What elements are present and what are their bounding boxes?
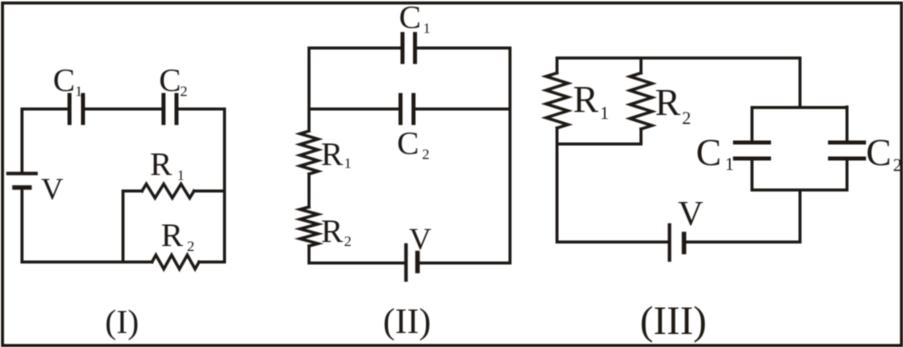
label V (circuit III) (678, 194, 703, 233)
resistor R2 (circuit III) (630, 73, 652, 129)
svg-text:V: V (41, 171, 64, 206)
label C1 (circuit III) (696, 132, 734, 174)
wire: cap box bottom rail (752, 189, 847, 192)
battery V (circuit I) (8, 174, 36, 188)
svg-text:2: 2 (893, 155, 902, 175)
label V (circuit I) (41, 171, 64, 206)
wire: R1 branch left vertical (122, 191, 125, 262)
svg-text:R: R (161, 218, 183, 254)
label (I) (105, 304, 139, 341)
svg-text:1: 1 (600, 103, 609, 123)
svg-text:2: 2 (682, 108, 691, 128)
label (II) (383, 301, 431, 341)
wire: bottom rail left of battery (557, 241, 667, 244)
wire: left vertical R2 to bottom (308, 246, 311, 263)
wire: bottom rail right of battery (686, 241, 800, 244)
battery V (circuit III) (670, 225, 685, 260)
svg-text:C: C (866, 132, 891, 174)
wire: top-right segment C1 to corner (417, 47, 510, 50)
capacitor C2 (circuit II) (401, 95, 414, 123)
svg-text:(III): (III) (640, 298, 707, 343)
svg-text:(II): (II) (383, 301, 431, 341)
label (III) (640, 298, 707, 343)
resistor R2 (circuit II) (300, 207, 318, 246)
wire: C1 branch upper lead (751, 108, 754, 142)
wire: R2 branch bottom lead (640, 129, 643, 144)
wire: middle rail left of C2 (309, 108, 399, 111)
wire: bottom segment right of R2 (199, 261, 225, 264)
resistor R1 (circuit II) (300, 131, 318, 174)
wire: bottom segment right of battery (419, 262, 510, 265)
capacitor C1 (circuit II) (403, 34, 416, 62)
wire: right vertical of circuit II (509, 48, 512, 263)
wire: left vertical below R1 (556, 128, 559, 144)
svg-text:C: C (696, 132, 721, 174)
wire: C2 branch upper lead (846, 107, 849, 141)
svg-text:1: 1 (344, 156, 352, 172)
wire: left vertical to bottom (556, 144, 559, 242)
svg-text:R: R (321, 214, 343, 250)
label R1 (circuit II) (321, 137, 352, 173)
svg-text:1: 1 (725, 154, 734, 174)
wire: top rail (557, 57, 800, 60)
wire: right vertical top (to cap box) (799, 58, 802, 108)
wire: R2 branch top lead (640, 58, 643, 73)
svg-text:R: R (321, 137, 343, 173)
wire: bottom segment left of battery (309, 262, 404, 265)
wire: left vertical top to R1 (308, 48, 311, 131)
svg-text:C: C (159, 63, 181, 99)
wire: C2 branch lower lead (846, 160, 849, 190)
svg-text:R: R (655, 82, 681, 124)
label R2 (circuit II) (321, 214, 352, 250)
wire: joining rail under R1 R2 (557, 143, 641, 146)
label C2 (circuit III) (866, 132, 902, 175)
capacitor C2 (164, 95, 177, 123)
label C1 (circuit II) (399, 0, 431, 37)
wire: right vertical of circuit I (223, 109, 226, 262)
wire: R1 right lead (194, 190, 225, 193)
wire: right vertical bottom (cap box to bottom rail) (799, 190, 802, 242)
wire: C1 branch lower lead (751, 160, 754, 190)
svg-text:1: 1 (75, 84, 83, 100)
svg-text:C: C (53, 63, 75, 99)
svg-text:V: V (409, 221, 432, 256)
label C2 (circuit II) (397, 126, 430, 163)
label R2 (circuit III) (655, 82, 691, 128)
capacitor C1 (70, 95, 84, 123)
capacitor C2 (circuit III) (830, 143, 864, 159)
battery V (circuit II) (406, 245, 418, 280)
wire: left vertical upper (top to battery) (21, 109, 24, 172)
wire: top-right segment C2 to corner (178, 108, 225, 111)
svg-text:1: 1 (423, 21, 431, 37)
label R1 (circuit I) (150, 147, 185, 184)
label R2 (circuit I) (161, 218, 195, 255)
wire: R1 left lead (123, 190, 142, 193)
svg-text:R: R (573, 79, 599, 121)
label V (circuit II) (409, 221, 432, 256)
wire: left vertical R1 to R2 (308, 174, 311, 207)
wire: left vertical lower (battery to bottom) (21, 189, 24, 262)
svg-text:2: 2 (180, 84, 188, 100)
svg-text:C: C (399, 0, 421, 36)
label C1 (53, 63, 83, 100)
svg-text:V: V (678, 194, 703, 233)
svg-text:C: C (397, 126, 419, 162)
wire: top middle segment C1 to C2 (85, 108, 162, 111)
wire: left vertical top lead of R1 (556, 58, 559, 73)
capacitor C1 (circuit III) (735, 143, 769, 159)
svg-text:2: 2 (187, 239, 195, 255)
wire: cap box top rail (752, 106, 847, 109)
svg-text:R: R (150, 147, 172, 183)
label R1 (circuit III) (573, 79, 609, 123)
resistor R1 (circuit III) (546, 73, 568, 128)
wire: middle rail right of C2 (415, 108, 510, 111)
wire: top-left segment to C1 (22, 108, 68, 111)
wire: top-left segment to C1 (309, 47, 401, 50)
wire: bottom segment left of R2 (22, 261, 152, 264)
resistor R2 (circuit I) (152, 255, 199, 269)
svg-text:(I): (I) (105, 304, 139, 341)
label C2 (159, 63, 188, 100)
svg-text:1: 1 (177, 168, 185, 184)
resistor R1 (circuit I) (142, 184, 194, 198)
svg-text:2: 2 (344, 234, 352, 250)
svg-text:2: 2 (422, 147, 430, 163)
